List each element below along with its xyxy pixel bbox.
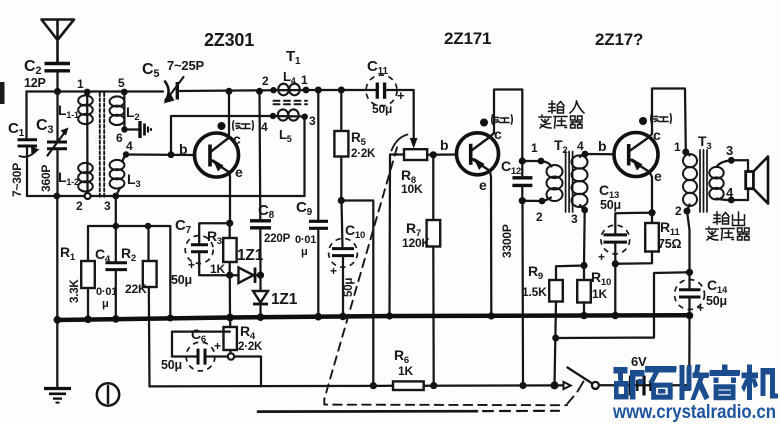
labels L4 L5 [279, 69, 296, 144]
label C6 50u [161, 326, 221, 372]
svg-text:e: e [235, 164, 243, 180]
svg-text:R4: R4 [240, 323, 256, 342]
svg-text:C8: C8 [258, 202, 275, 221]
capacitor C4 [106, 226, 128, 319]
label T3 [698, 133, 711, 152]
wire T2 pin3 down [580, 210, 587, 269]
svg-text:50μ: 50μ [706, 294, 727, 308]
resistor R2 [143, 226, 157, 386]
svg-text:T1: T1 [286, 48, 301, 67]
svg-text:+: + [330, 264, 337, 278]
svg-text:+: + [598, 250, 605, 264]
capacitor C8 [250, 88, 271, 279]
label (red) Q2 [492, 115, 513, 124]
wire y196 [27, 117, 305, 196]
svg-text:R2: R2 [121, 245, 136, 264]
svg-text:R5: R5 [351, 130, 367, 148]
scan artifact left edge [0, 82, 5, 104]
capacitor C11 [366, 75, 414, 139]
svg-text:50μ: 50μ [171, 273, 192, 287]
pin numbers T3 [674, 140, 734, 218]
label C1 value 7~30P [8, 120, 25, 197]
capacitor C14 [675, 272, 705, 319]
label (red) Q1 [233, 121, 254, 130]
svg-text:4: 4 [726, 185, 734, 200]
label Q2 pins [440, 126, 502, 193]
svg-text:120K: 120K [402, 236, 430, 250]
indicator dot Q2 [480, 119, 488, 127]
transistor Q2 [457, 133, 499, 175]
transformer T2 secondary [572, 151, 589, 214]
svg-text:c: c [494, 126, 502, 142]
resistor R9 [549, 266, 584, 386]
bottom chassis line [258, 409, 559, 413]
label C8 220P [258, 202, 291, 245]
label 2Z172 [595, 30, 643, 49]
antenna [42, 20, 75, 63]
svg-text:μ: μ [102, 298, 109, 310]
svg-text:6V: 6V [631, 354, 647, 369]
wire Q3 collector loop [649, 89, 686, 153]
svg-text:0·01: 0·01 [295, 234, 316, 246]
diode D2 1Z1 [253, 275, 268, 317]
wire R8 left to bus [386, 155, 393, 320]
svg-text:+: + [188, 258, 195, 272]
svg-text:50μ: 50μ [343, 278, 355, 297]
svg-text:5: 5 [118, 76, 125, 90]
svg-text:L4: L4 [283, 69, 296, 86]
wire Q2 emitter to bus [488, 171, 495, 320]
svg-text:T2: T2 [554, 137, 567, 156]
svg-text:μ: μ [301, 246, 308, 258]
label output transformer (Chinese) [714, 212, 745, 226]
svg-text:2: 2 [262, 74, 269, 88]
svg-text:6: 6 [116, 131, 123, 145]
resistor R11 [615, 213, 659, 264]
svg-text:C5: C5 [142, 61, 159, 80]
svg-text:1Z1: 1Z1 [271, 291, 298, 308]
switch pivot ring [592, 382, 599, 389]
label T1 [286, 48, 301, 67]
svg-text:C3: C3 [36, 117, 53, 136]
node C3 bottom [53, 193, 60, 200]
svg-text:L1-2: L1-2 [58, 169, 79, 187]
wire R5 node to negative rail [341, 201, 377, 390]
resistor R6 [393, 381, 424, 390]
svg-text:e: e [479, 177, 487, 193]
wire C14 bottom to battery [688, 316, 690, 386]
svg-text:R3: R3 [207, 228, 222, 247]
transformer T3 primary [682, 149, 697, 215]
core antenna transformer [100, 93, 104, 197]
negative rail y386 [150, 385, 564, 386]
svg-text:C4: C4 [95, 246, 111, 265]
pin numbers T2 [531, 139, 584, 226]
svg-text:2Z17?: 2Z17? [595, 30, 643, 49]
svg-text:+: + [397, 88, 405, 103]
svg-text:1Z1: 1Z1 [237, 247, 264, 264]
wire C6 node to negative rail [234, 357, 261, 387]
svg-text:R11: R11 [660, 219, 680, 238]
transformer T1 winding L4 [270, 84, 309, 96]
svg-text:360P: 360P [39, 165, 53, 192]
label R8 10K [401, 167, 423, 196]
node pin1 / pin2 [84, 89, 91, 199]
battery 6V [631, 376, 651, 396]
svg-text:50μ: 50μ [161, 358, 182, 372]
resistor R1 [81, 261, 95, 319]
wire feedback loop to L5 pin4 [171, 116, 273, 155]
label C11 50u [367, 58, 405, 116]
label C7 50u [171, 217, 195, 287]
svg-text:L5: L5 [279, 127, 292, 144]
label C14 50u [697, 277, 728, 315]
symbol circle-1 [97, 383, 119, 405]
svg-text:4: 4 [261, 120, 268, 134]
resistor R7 [427, 155, 441, 389]
svg-text:+: + [697, 301, 704, 315]
label diode D2 1Z1 [271, 291, 298, 308]
svg-text:b: b [179, 141, 187, 157]
svg-text:2: 2 [536, 210, 543, 224]
diode D1 1Z1 [230, 268, 261, 284]
label R3 1K [207, 228, 225, 276]
svg-text:22K: 22K [125, 282, 147, 296]
label C5 value 7~25P [142, 58, 204, 80]
winding L2 [110, 89, 128, 133]
winding L1-2 [78, 163, 93, 196]
svg-text:3.3K: 3.3K [69, 279, 81, 303]
wire Q3 emitter [648, 172, 655, 216]
transistor Q1 [195, 133, 239, 177]
wire R9 node to C14 top [556, 272, 690, 338]
label 2Z171 [444, 29, 491, 48]
indicator dot Q1 (red lead) [218, 122, 226, 130]
svg-text:10K: 10K [401, 182, 423, 196]
label C9 0.01u [295, 199, 316, 258]
wire T2 pin4 to Q3 base [585, 153, 614, 156]
svg-text:2·2K: 2·2K [351, 148, 376, 160]
svg-text:C1: C1 [8, 120, 25, 139]
svg-text:b: b [440, 137, 448, 153]
label Q1 pins [179, 131, 243, 180]
label R9 1.5K [522, 263, 547, 299]
capacitor C12 [512, 157, 542, 204]
resistor R5 [334, 87, 348, 205]
svg-text:C10: C10 [345, 222, 365, 241]
label diode D1 1Z1 [237, 247, 264, 264]
label R5 2.2K [351, 130, 376, 160]
capacitor C1 (trimmer 7~30P) [18, 92, 40, 197]
transistor Q3 [614, 133, 658, 177]
svg-text:2·2K: 2·2K [238, 341, 263, 353]
capacitor C2 [45, 64, 71, 93]
label Q3 pins [598, 127, 662, 184]
svg-text:1: 1 [674, 140, 681, 154]
svg-text:2: 2 [675, 204, 682, 218]
core T1 [274, 101, 308, 105]
label T2 [554, 137, 567, 156]
wire switch to battery [599, 384, 689, 386]
capacitor C7 [185, 223, 230, 275]
svg-text:1K: 1K [398, 364, 413, 378]
resistor R4 [224, 318, 237, 357]
svg-text:1: 1 [77, 77, 84, 91]
capacitor C3 (variable 360P) [47, 92, 69, 197]
switch contact triangle [564, 382, 571, 389]
svg-text:3300P: 3300P [500, 224, 514, 258]
svg-text:1: 1 [531, 141, 538, 155]
pin numbers T1 [261, 73, 316, 134]
ground main [44, 389, 71, 403]
svg-text:3: 3 [726, 143, 733, 158]
svg-text:2Z171: 2Z171 [444, 29, 491, 48]
label battery 6V [631, 354, 647, 369]
dashed gang link diagonal [324, 148, 397, 400]
svg-text:C7: C7 [175, 217, 192, 236]
svg-text:c: c [233, 131, 241, 147]
svg-text:R1: R1 [60, 244, 76, 263]
node antenna junction [54, 88, 61, 95]
node C6/R4 terminal ring [228, 353, 234, 359]
wire ground column x57 [56, 196, 58, 388]
switch lever [551, 368, 592, 390]
label 2Z301 [204, 30, 254, 50]
svg-text:b: b [598, 138, 606, 154]
speaker [731, 157, 768, 204]
label input transformer (Chinese) [549, 101, 585, 113]
svg-text:7~25P: 7~25P [167, 58, 204, 73]
transformer T3 secondary [709, 157, 734, 204]
svg-text:220P: 220P [264, 233, 291, 245]
capacitor C5 (trimmer 7~25P) [164, 77, 275, 104]
wire R3 bottom to bus [229, 275, 231, 317]
svg-text:L3: L3 [127, 171, 140, 190]
capacitor C9 [309, 87, 328, 317]
svg-text:4: 4 [577, 139, 584, 153]
label R2 22K [121, 245, 147, 296]
label (red) Q3 [651, 114, 672, 123]
resistor R3 [223, 223, 236, 279]
svg-text:3: 3 [571, 212, 578, 226]
label C3 value 360P [36, 117, 53, 192]
ground pin6 (sideways) [125, 121, 152, 138]
svg-text:2Z301: 2Z301 [204, 30, 254, 50]
label R10 1K [591, 269, 611, 301]
label R4 2.2K [238, 323, 263, 353]
svg-text:12P: 12P [24, 76, 46, 90]
svg-text:T3: T3 [698, 133, 711, 152]
watermark url [612, 402, 776, 423]
core T3 [700, 150, 707, 212]
transformer T1 winding L5 [270, 109, 308, 120]
svg-text:C12: C12 [501, 158, 521, 177]
resistor R8 (volume) [390, 149, 457, 160]
svg-text:c: c [653, 127, 661, 143]
svg-text:L1-1: L1-1 [58, 102, 79, 120]
wire bias row y226 [88, 223, 174, 322]
labels L1-1 L1-2 [58, 102, 79, 187]
potentiometer R8 wiper arrow [392, 135, 418, 151]
wire Q2 collector loop [489, 90, 522, 162]
indicator dot Q3 [639, 117, 647, 125]
svg-text:7~30P: 7~30P [10, 163, 24, 197]
label C2 value 12P [24, 58, 46, 90]
core T2 [566, 152, 573, 213]
svg-text:C9: C9 [296, 199, 313, 218]
label R11 75ohm [658, 219, 682, 251]
wire pin3 to bias row [115, 196, 117, 226]
label C13 50u [598, 182, 621, 264]
wire Q1 emitter [226, 173, 233, 227]
label C10 50u [330, 222, 365, 297]
label C12 3300P [500, 158, 521, 258]
resistor R10 [577, 266, 591, 320]
svg-text:75Ω: 75Ω [658, 237, 682, 251]
svg-text:R10: R10 [591, 269, 611, 288]
wire C12 column to negative rail [519, 201, 526, 389]
dashed gang link bottom [324, 382, 583, 406]
wire Q1 collector [226, 88, 233, 137]
wire T3 pin2 to C14 [686, 211, 693, 276]
svg-text:L2: L2 [126, 104, 139, 123]
svg-text:C2: C2 [24, 58, 41, 77]
bus (thick common rail) [54, 313, 690, 324]
pin numbers antenna coil [76, 76, 133, 213]
svg-text:50μ: 50μ [372, 102, 392, 116]
svg-text:+: + [214, 339, 221, 353]
svg-text:3: 3 [309, 114, 316, 128]
svg-text:R9: R9 [528, 263, 543, 282]
wire Q1 base [126, 151, 195, 158]
winding L1-1 [78, 92, 93, 164]
svg-text:3: 3 [104, 199, 111, 213]
wire top rail middle [306, 89, 376, 91]
winding L3 [110, 151, 130, 199]
label C4 0.01u [95, 246, 117, 310]
svg-text:www.crystalradio.cn: www.crystalradio.cn [612, 402, 776, 423]
svg-text:e: e [654, 168, 662, 184]
label R7 120K [402, 220, 430, 250]
svg-text:1: 1 [301, 73, 308, 87]
labels L2 L3 [126, 104, 140, 190]
svg-text:0·01: 0·01 [96, 286, 117, 298]
svg-text:C11: C11 [367, 58, 388, 77]
label R6 1K [394, 347, 413, 378]
svg-text:4: 4 [126, 139, 133, 153]
svg-text:2: 2 [76, 199, 83, 213]
svg-text:50μ: 50μ [600, 198, 621, 212]
capacitor C6 [172, 332, 230, 371]
capacitor C10 [329, 201, 358, 317]
label R1 3.3K [60, 244, 81, 303]
transformer T2 primary [538, 158, 563, 205]
svg-text:1K: 1K [592, 287, 607, 301]
svg-text:1.5K: 1.5K [522, 285, 547, 299]
capacitor C13 [601, 213, 652, 319]
wire top rail left [27, 90, 164, 92]
svg-text:1K: 1K [210, 262, 225, 276]
